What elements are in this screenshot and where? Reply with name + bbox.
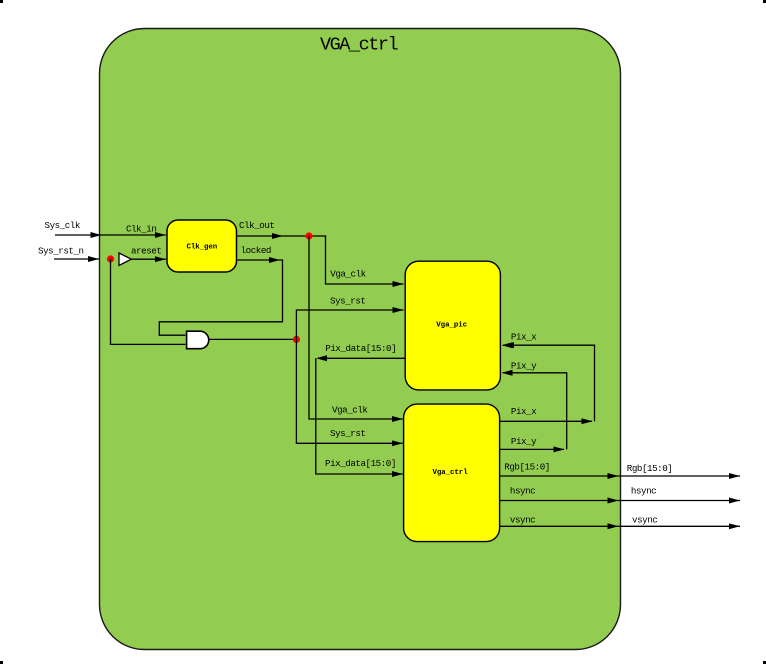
svg-text:Pix_x: Pix_x	[511, 331, 537, 342]
AND gate U1	[187, 331, 209, 349]
svg-text:Pix_data[15:0]: Pix_data[15:0]	[325, 458, 396, 469]
wire Pix_x from Vga_ctrl to vga_pic	[500, 345, 595, 421]
svg-text:Pix_data[15:0]: Pix_data[15:0]	[325, 343, 396, 354]
wire Clk_out branch down to Vga_ctrl Vga_clk	[309, 236, 403, 419]
svg-text:Sys_rst: Sys_rst	[330, 295, 365, 306]
wire Clk_out from clk_gen to junction 2 and corner	[236, 235, 283, 237]
svg-text:Clk_gen: Clk_gen	[187, 244, 218, 252]
svg-text:VGA_ctrl: VGA_ctrl	[320, 35, 399, 56]
wire sys_rst down to Vga_ctrl Sys_rst	[296, 339, 402, 443]
corner mark top-right	[763, 0, 766, 3]
buffer triangle on areset	[119, 253, 131, 265]
wire vsync output	[500, 525, 741, 527]
module boundary VGA_ctrl	[100, 29, 621, 650]
svg-text:Clk_out: Clk_out	[239, 220, 274, 231]
svg-text:Pix_x: Pix_x	[511, 406, 537, 417]
wire locked feedback to AND gate	[159, 260, 282, 335]
wire Rgb output	[500, 475, 741, 477]
svg-text:Rgb[15:0]: Rgb[15:0]	[504, 461, 550, 472]
svg-text:vsync: vsync	[632, 514, 657, 525]
wire Sys_clk input	[55, 234, 166, 236]
svg-text:locked: locked	[241, 245, 271, 256]
wire Sys_rst_n branch down to AND gate	[111, 259, 186, 344]
svg-text:Pix_y: Pix_y	[511, 436, 537, 447]
arrowhead Rgb at boundary	[608, 473, 619, 479]
arrowhead vsync at boundary	[608, 523, 619, 529]
node junction 1 on Sys_rst_n	[107, 255, 114, 262]
corner mark bottom-left	[0, 661, 3, 664]
corner mark bottom-right	[763, 661, 766, 664]
wire Clk_out continuation to vga_pic Vga_clk	[283, 236, 404, 284]
arrowhead Pix_data left corner	[316, 355, 327, 361]
svg-text:Vga_clk: Vga_clk	[330, 268, 366, 279]
wire hsync output	[500, 500, 741, 502]
arrowhead Pix_x into vga_pic	[502, 342, 513, 348]
svg-text:Rgb[15:0]: Rgb[15:0]	[627, 463, 673, 474]
module Vga_ctrl	[404, 404, 500, 541]
wire Pix_y from Vga_ctrl to vga_pic	[500, 373, 567, 450]
svg-text:Sys_clk: Sys_clk	[45, 220, 81, 231]
svg-text:areset: areset	[131, 246, 161, 257]
wire sys_rst up to vga_pic Sys_rst	[296, 310, 403, 339]
svg-text:Pix_y: Pix_y	[511, 360, 537, 371]
wire Sys_rst_n input	[54, 258, 99, 260]
arrowhead Pix_x right corner	[582, 418, 593, 424]
svg-text:Vga_pic: Vga_pic	[436, 321, 467, 329]
node junction 2 on Clk_out	[305, 232, 312, 239]
wire Pix_data from vga_pic to Vga_ctrl	[316, 358, 405, 474]
svg-text:Sys_rst_n: Sys_rst_n	[38, 245, 84, 256]
module clk_gen	[167, 220, 237, 272]
svg-text:vsync: vsync	[510, 514, 535, 525]
wire areset into clk_gen	[131, 258, 166, 260]
svg-text:hsync: hsync	[631, 485, 656, 496]
wire AND output to junction 3	[209, 338, 296, 340]
arrowhead Sys_clk at boundary	[91, 232, 102, 238]
arrowhead hsync at boundary	[608, 498, 619, 504]
svg-text:hsync: hsync	[510, 485, 535, 496]
svg-text:Vga_ctrl: Vga_ctrl	[433, 469, 469, 477]
svg-text:Sys_rst: Sys_rst	[330, 428, 365, 439]
svg-text:Vga_clk: Vga_clk	[332, 405, 368, 416]
arrowhead Pix_y into vga_pic	[502, 370, 513, 376]
arrowhead Pix_y right corner	[554, 446, 565, 452]
wire locked from clk_gen	[236, 259, 280, 261]
svg-text:Clk_in: Clk_in	[126, 224, 156, 235]
node junction 3 on sys_rst net	[293, 336, 300, 343]
module vga_pic	[405, 261, 500, 390]
corner mark top-left	[0, 0, 3, 3]
